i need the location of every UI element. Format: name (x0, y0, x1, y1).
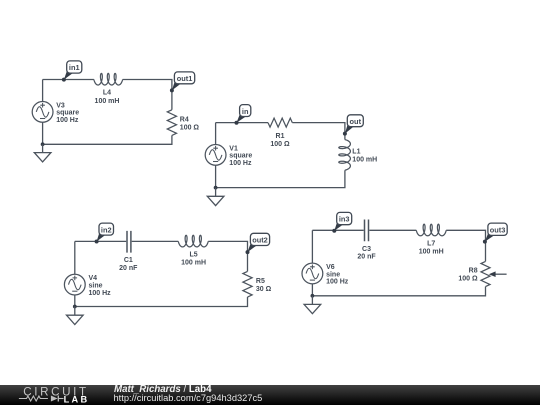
inductor L7 (416, 224, 446, 256)
node junction (73, 305, 77, 309)
node in1 (62, 61, 82, 82)
wire V3 top lead (42, 80, 44, 102)
wire L4 to R4 corner (123, 80, 172, 110)
svg-text:L7: L7 (427, 241, 435, 248)
wire V6 bottom lead (311, 284, 313, 296)
voltage source V3 (32, 102, 79, 125)
svg-text:100 Hz: 100 Hz (326, 279, 349, 286)
wire V3 bottom lead (42, 122, 44, 144)
svg-text:square: square (56, 110, 79, 117)
node in2 (95, 223, 114, 243)
inductor L4 (94, 73, 123, 105)
capacitor C3 (357, 220, 376, 261)
svg-text:R1: R1 (276, 133, 285, 140)
wire bottom return (75, 297, 248, 307)
wire V4 top lead (74, 241, 76, 274)
svg-text:in1: in1 (69, 63, 80, 72)
svg-text:100 Ω: 100 Ω (180, 124, 200, 131)
inductor L1 (339, 140, 377, 171)
wire C1 to L5 (132, 240, 179, 242)
inductor L5 (178, 235, 208, 266)
svg-text:R5: R5 (256, 278, 265, 285)
node junction (41, 142, 45, 146)
svg-text:100 Hz: 100 Hz (89, 290, 112, 297)
ground (207, 188, 224, 206)
node junction (214, 186, 218, 190)
svg-text:out1: out1 (177, 74, 193, 83)
svg-text:out2: out2 (252, 236, 268, 245)
svg-text:V6: V6 (326, 264, 335, 271)
ground (34, 144, 51, 162)
svg-text:L1: L1 (352, 149, 360, 156)
svg-text:sine: sine (89, 282, 103, 289)
voltage source V1 (205, 145, 252, 168)
wire C3 to L7 (369, 229, 416, 231)
svg-text:100 mH: 100 mH (352, 157, 377, 164)
resistor R4 (167, 110, 199, 136)
wire L7 to R8 corner (446, 230, 485, 261)
svg-text:C3: C3 (362, 246, 371, 253)
footer bar (0, 385, 540, 405)
svg-text:V4: V4 (89, 275, 98, 282)
resistor R1 (268, 118, 292, 148)
svg-text:20 nF: 20 nF (119, 265, 138, 272)
resistor R8 rheostat (458, 261, 506, 286)
svg-text:30 Ω: 30 Ω (256, 286, 272, 293)
wire V6 to C3 (312, 229, 363, 231)
svg-text:in3: in3 (339, 215, 350, 224)
svg-text:in: in (242, 107, 249, 116)
wire V1 to R1 (216, 122, 268, 124)
svg-text:V1: V1 (229, 145, 238, 152)
node out (343, 115, 363, 136)
wire bottom return (216, 170, 345, 187)
svg-text:C1: C1 (124, 257, 133, 264)
svg-text:100 Hz: 100 Hz (229, 160, 252, 167)
svg-text:100 Ω: 100 Ω (270, 141, 290, 148)
svg-text:R4: R4 (180, 116, 189, 123)
node in (235, 105, 251, 125)
svg-text:out: out (350, 117, 362, 126)
svg-text:100 mH: 100 mH (181, 260, 206, 267)
resistor R5 (243, 271, 272, 297)
svg-text:100 mH: 100 mH (419, 249, 444, 256)
node junction (311, 294, 315, 298)
svg-text:100 Ω: 100 Ω (458, 275, 478, 282)
svg-text:L4: L4 (103, 90, 111, 97)
wire L5 to R5 corner (208, 241, 247, 271)
wire V4 to C1 (75, 240, 126, 242)
capacitor C1 (119, 231, 138, 272)
svg-text:R8: R8 (469, 267, 478, 274)
node out2 (246, 233, 270, 254)
svg-text:LAB: LAB (64, 395, 90, 405)
svg-text:V3: V3 (56, 102, 65, 109)
svg-text:L5: L5 (190, 251, 198, 258)
svg-text:out3: out3 (490, 225, 506, 234)
wire V1 top lead (215, 123, 217, 145)
wire V1 bottom lead (215, 165, 217, 187)
ground (304, 296, 321, 314)
CircuitLab logo (0, 385, 112, 405)
svg-text:sine: sine (326, 271, 340, 278)
footer title text (114, 386, 211, 394)
wire R1 to L1 corner (292, 123, 345, 140)
node out1 (170, 72, 195, 93)
svg-text:100 mH: 100 mH (95, 98, 120, 105)
svg-text:100 Hz: 100 Hz (56, 117, 79, 124)
wire bottom return (43, 135, 172, 144)
svg-text:20 nF: 20 nF (357, 254, 376, 261)
node out3 (483, 223, 507, 244)
svg-text:square: square (229, 153, 252, 160)
wire bottom return (312, 287, 485, 296)
voltage source V6 (302, 263, 349, 286)
svg-text:in2: in2 (101, 225, 112, 234)
wire top-left V3 to L4 (43, 79, 94, 81)
wire V6 top lead (311, 230, 313, 263)
ground (67, 307, 84, 325)
voltage source V4 (64, 274, 111, 297)
node in3 (332, 212, 351, 232)
wire V4 bottom lead (74, 295, 76, 307)
